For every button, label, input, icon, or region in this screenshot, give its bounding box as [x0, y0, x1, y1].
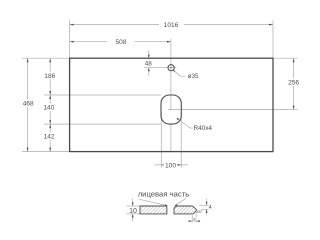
- svg-text:10: 10: [129, 208, 137, 215]
- svg-text:508: 508: [115, 39, 126, 46]
- svg-text:48: 48: [145, 61, 153, 68]
- svg-text:1016: 1016: [164, 22, 179, 29]
- svg-text:45°: 45°: [197, 210, 203, 214]
- svg-text:186: 186: [44, 73, 55, 80]
- svg-text:256: 256: [288, 80, 299, 87]
- svg-text:R40x4: R40x4: [194, 125, 213, 132]
- svg-text:4: 4: [209, 205, 212, 211]
- svg-text:142: 142: [44, 134, 55, 141]
- svg-text:ø35: ø35: [188, 73, 199, 80]
- svg-text:лицевая часть: лицевая часть: [138, 190, 190, 199]
- svg-text:100: 100: [165, 162, 176, 169]
- svg-text:140: 140: [43, 105, 54, 112]
- svg-text:468: 468: [23, 101, 34, 108]
